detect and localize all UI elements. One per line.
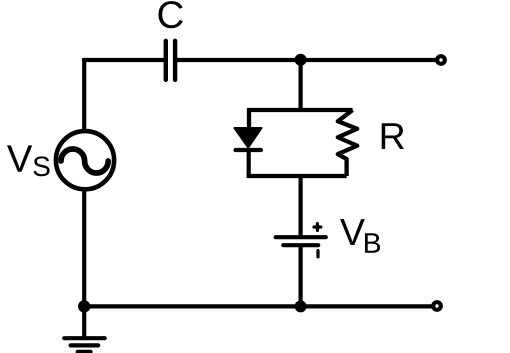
ground bbox=[64, 306, 105, 352]
wire source to bottom bbox=[82, 190, 86, 307]
label C bbox=[159, 1, 183, 28]
wire bottom bbox=[84, 304, 433, 308]
capacitor C bbox=[166, 41, 175, 80]
label R bbox=[382, 123, 404, 149]
wire battery to bottom bbox=[299, 245, 303, 306]
terminal bottom-right bbox=[433, 302, 441, 310]
label VS - S subscript bbox=[34, 156, 50, 176]
resistor R bbox=[338, 110, 357, 176]
wire parallel-box bottom bar bbox=[247, 174, 347, 178]
node bottom-left junction bbox=[78, 300, 90, 312]
label VS - V bbox=[7, 145, 32, 171]
wire middle drop (top wire to parallel box) bbox=[299, 60, 303, 112]
source VS bbox=[56, 131, 114, 189]
terminal top-right bbox=[437, 56, 445, 64]
label VB - B subscript bbox=[365, 233, 380, 253]
node top junction bbox=[295, 54, 307, 66]
wire top-left (source top to capacitor) bbox=[84, 60, 164, 130]
wire box to battery bbox=[299, 176, 303, 237]
node bottom-middle junction bbox=[295, 300, 307, 312]
diode D1 bbox=[235, 128, 262, 176]
battery VB bbox=[276, 224, 326, 257]
wire top-right (capacitor to terminal) bbox=[176, 58, 438, 62]
label VB - V bbox=[340, 219, 365, 245]
wire parallel-box top bar bbox=[249, 110, 353, 129]
